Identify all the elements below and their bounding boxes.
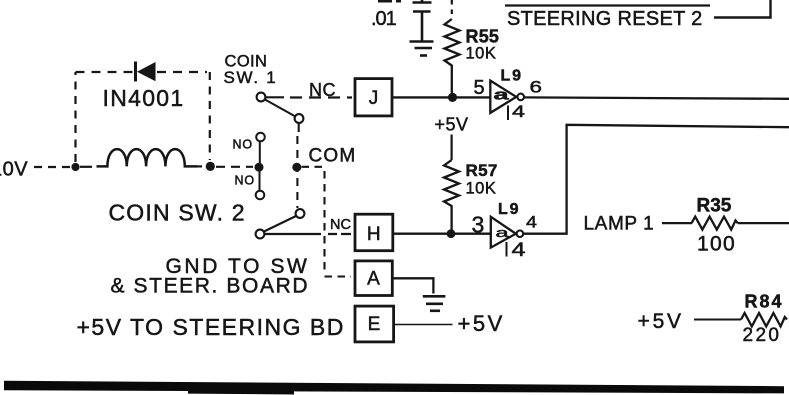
label STEERING RESET 2 (with overline)	[505, 6, 710, 31]
node junction COM	[292, 163, 301, 172]
svg-text:L9: L9	[498, 201, 520, 218]
capacitor C (top, partially cut off)	[413, 0, 432, 41]
svg-text:a: a	[496, 226, 509, 240]
svg-text:NO: NO	[233, 138, 253, 152]
svg-text:NC: NC	[330, 217, 351, 233]
wire +5V to R84	[694, 319, 741, 321]
wire J box to inverter U1 input	[392, 96, 490, 98]
svg-text:L9: L9	[501, 68, 523, 85]
ground (A box)	[423, 296, 446, 311]
wire LAMP 1 to R35	[662, 222, 692, 224]
scan border band (bottom)	[4, 381, 784, 395]
wire (dashed) 10V to node	[34, 166, 70, 168]
svg-text:3: 3	[472, 212, 485, 238]
svg-text:LAMP 1: LAMP 1	[584, 214, 655, 235]
svg-text:COM: COM	[309, 146, 357, 167]
wire E box to +5V	[394, 324, 453, 326]
connector pin A	[355, 261, 392, 296]
wire +5V to R57	[451, 135, 453, 161]
svg-text:220: 220	[743, 325, 782, 346]
label .01 (capacitor value, text above cut off)	[371, 0, 401, 30]
resistor R55	[445, 19, 460, 69]
wire (dashed) node up to diode line	[74, 72, 76, 162]
wire R35 to right edge	[738, 222, 789, 224]
svg-text:100: 100	[697, 233, 736, 256]
inverter U2 L9	[491, 217, 523, 248]
svg-text:R57: R57	[466, 161, 498, 180]
switch SW1 (NC contact and lever)	[257, 93, 304, 123]
wire U2 output up and to right edge	[523, 125, 789, 234]
wire node 3 to NO lower	[259, 172, 261, 191]
wire NO upper to node 3	[259, 142, 261, 164]
svg-text:4: 4	[526, 213, 537, 232]
wire (dashed) node 2 to NO junction	[216, 166, 253, 168]
svg-text:R35: R35	[697, 196, 732, 217]
pin 14 (U1 power)	[508, 102, 525, 121]
svg-text:+5V TO STEERING BD: +5V TO STEERING BD	[77, 314, 345, 340]
svg-text:H: H	[367, 224, 381, 245]
wire (dashed, top of R55)	[451, 0, 453, 19]
switch SW1 NO contact (lower)	[256, 191, 265, 200]
wire A box to ground	[392, 278, 433, 293]
wire H box to inverter U2 input	[393, 232, 491, 234]
svg-text:4: 4	[512, 102, 525, 121]
svg-text:J: J	[369, 88, 379, 109]
wire U1 output to right edge	[524, 97, 789, 98]
inverter U1 L9	[490, 81, 524, 113]
svg-text:10K: 10K	[466, 180, 497, 198]
svg-text:.01: .01	[371, 8, 397, 30]
resistor R84	[741, 313, 787, 326]
svg-text:R55: R55	[466, 27, 500, 47]
svg-text:10K: 10K	[466, 45, 497, 63]
wire (dashed) diode line down to node 2	[209, 72, 211, 160]
node junction (R55 / J / U1 pin5)	[448, 93, 457, 102]
svg-text:STEERING RESET 2: STEERING RESET 2	[507, 8, 703, 30]
pin 14 (U2 power)	[507, 240, 527, 261]
svg-text:a: a	[494, 87, 510, 104]
svg-text:4: 4	[512, 240, 527, 261]
wire (dashed) node to inductor	[80, 166, 96, 168]
svg-text:+5V: +5V	[638, 310, 684, 333]
label COIN SW. 1	[224, 53, 278, 88]
switch SW2 (pivot, lever, NC contact)	[256, 209, 305, 238]
node junction 2 (diode / inductor / switches)	[206, 162, 215, 171]
node junction (R57 / H / U2 pin3)	[447, 229, 456, 238]
svg-text:+5V: +5V	[435, 115, 469, 135]
wire SW1 NC to J box (dashed)	[266, 96, 352, 98]
svg-text:A: A	[367, 269, 380, 290]
wire (dashed) diode top line	[76, 71, 208, 73]
node junction 3 (NO common)	[255, 163, 264, 172]
svg-text:+5V: +5V	[458, 311, 505, 336]
resistor R35	[692, 217, 738, 230]
svg-text:IN4001: IN4001	[103, 85, 185, 111]
svg-text:NO: NO	[235, 174, 255, 188]
wire SW2 NC to H box	[265, 233, 352, 235]
svg-text:& STEER. BOARD: & STEER. BOARD	[111, 275, 310, 298]
svg-text:E: E	[368, 314, 381, 335]
svg-text:R84: R84	[745, 292, 784, 312]
resistor R57	[444, 160, 459, 208]
wire inductor to node 2	[198, 165, 203, 167]
svg-text:COIN SW. 2: COIN SW. 2	[109, 200, 246, 226]
ground (below capacitor)	[410, 42, 434, 56]
diode 1N4001	[136, 62, 156, 82]
node junction (10V / diode / inductor)	[71, 163, 79, 171]
wire (dashed) COM to A box	[302, 167, 352, 277]
svg-text:6: 6	[530, 78, 543, 97]
wire R57 to node	[450, 208, 452, 234]
switch SW1 NO contact (upper)	[256, 133, 265, 142]
svg-text:SW. 1: SW. 1	[224, 68, 278, 87]
wire R55 to node	[451, 69, 453, 97]
connector pin J	[355, 79, 392, 116]
svg-text:10V: 10V	[0, 159, 28, 181]
wire STEERING RESET 2 to top edge	[714, 0, 771, 18]
inductor (coil)	[97, 149, 198, 166]
svg-text:5: 5	[474, 77, 485, 99]
connector pin H	[355, 214, 393, 251]
wire SW1 lever to COM (dashed)	[297, 123, 298, 208]
connector pin E	[355, 306, 394, 342]
